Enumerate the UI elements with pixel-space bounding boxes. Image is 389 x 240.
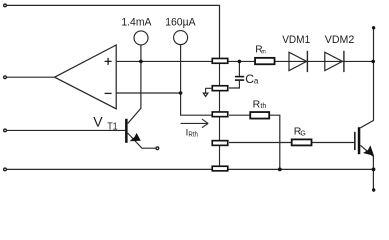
svg-text:1.4mA: 1.4mA	[121, 17, 151, 29]
svg-text:T1: T1	[107, 122, 118, 133]
svg-text:th: th	[260, 103, 266, 110]
svg-text:R: R	[253, 99, 261, 111]
svg-text:m: m	[262, 49, 266, 56]
svg-text:VDM1: VDM1	[282, 34, 310, 46]
svg-text:G: G	[300, 131, 305, 138]
svg-text:160µA: 160µA	[165, 17, 196, 29]
svg-text:VDM2: VDM2	[325, 34, 355, 46]
svg-text:a: a	[254, 77, 259, 86]
svg-text:V: V	[93, 113, 103, 129]
svg-text:Rth: Rth	[188, 132, 198, 139]
